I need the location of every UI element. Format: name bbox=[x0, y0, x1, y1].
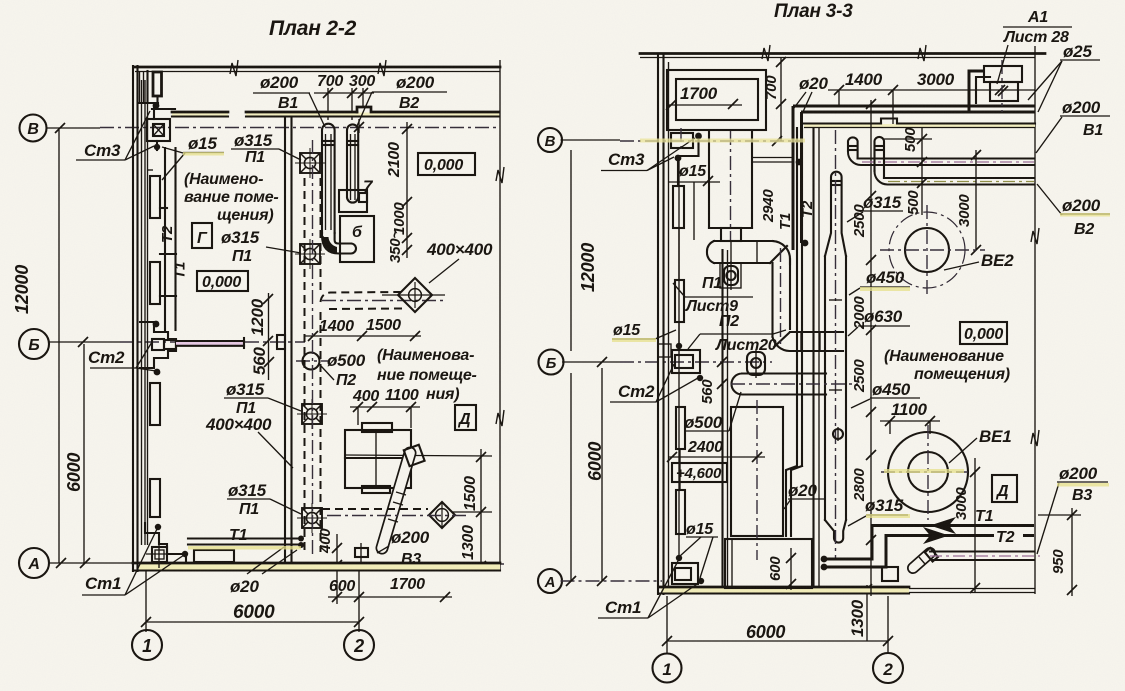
axis line В right bbox=[561, 136, 801, 146]
svg-text:ø315: ø315 bbox=[234, 131, 273, 150]
svg-text:ø315: ø315 bbox=[228, 481, 267, 500]
diffuser П1 no.1 bbox=[295, 148, 325, 178]
svg-text:1: 1 bbox=[142, 636, 152, 656]
svg-text:(Наимено-: (Наимено- bbox=[184, 171, 263, 188]
dim chain В-Б 12000 bbox=[12, 130, 59, 563]
room 1700 box bbox=[666, 70, 766, 130]
svg-text:П1: П1 bbox=[245, 149, 265, 166]
box Д left plan bbox=[455, 405, 476, 430]
duct В2 bbox=[347, 124, 367, 202]
label ø200 В2 leader right bbox=[1037, 184, 1110, 238]
fitting Лист20 bbox=[747, 349, 765, 378]
label ø500 right bbox=[684, 392, 741, 432]
dim chain В-Б 12000 right bbox=[571, 150, 598, 351]
label ø315 lower bbox=[848, 496, 908, 526]
label ø315 П1 400x400 third bbox=[205, 380, 301, 468]
dim 950 rot bbox=[1038, 508, 1081, 596]
svg-text:6000: 6000 bbox=[585, 442, 605, 481]
room name right bbox=[884, 348, 1010, 383]
П2 discharge duct upper bbox=[707, 228, 843, 351]
label ø15 bottom right bbox=[680, 521, 718, 578]
Т1 Т2 bottom pipes bbox=[821, 508, 1034, 570]
boundary line right bbox=[496, 60, 504, 570]
svg-text:ВЕ2: ВЕ2 bbox=[981, 251, 1014, 270]
svg-text:вание поме-: вание поме- bbox=[184, 189, 279, 206]
stair base rect bbox=[725, 539, 812, 588]
label ø200 В2 bbox=[357, 73, 447, 126]
partition wall x813 bbox=[814, 128, 820, 587]
svg-text:6000: 6000 bbox=[64, 453, 84, 492]
axis circle 1 right bbox=[653, 596, 682, 683]
svg-text:Лист 28: Лист 28 bbox=[1003, 29, 1069, 46]
label ø315 right top bbox=[847, 193, 903, 222]
svg-text:3000: 3000 bbox=[917, 70, 955, 89]
riser pipe right bbox=[676, 160, 682, 556]
duct В1 right plan bbox=[848, 137, 1034, 165]
dim chain right x872 bbox=[851, 99, 876, 596]
dim 560 rot bbox=[699, 357, 727, 404]
label ø20 top bbox=[794, 74, 828, 114]
П2 unit body bbox=[709, 131, 752, 240]
svg-text:Т1: Т1 bbox=[172, 262, 189, 279]
label ø15 top right bbox=[669, 163, 720, 240]
label ø315 П1 upper bbox=[231, 131, 301, 166]
svg-text:600: 600 bbox=[329, 578, 355, 595]
unit П1 fitting bbox=[720, 261, 741, 290]
room name text left bbox=[184, 171, 279, 224]
svg-text:А1: А1 bbox=[1027, 9, 1048, 26]
label А1 Лист28 bbox=[997, 9, 1072, 84]
top wall bbox=[135, 60, 500, 76]
svg-text:ø15: ø15 bbox=[686, 521, 714, 538]
dim 500 500 right bbox=[884, 127, 932, 215]
svg-text:Т2: Т2 bbox=[159, 225, 176, 243]
svg-text:Т2: Т2 bbox=[996, 529, 1015, 546]
svg-text:ø200: ø200 bbox=[1062, 98, 1101, 117]
svg-text:2100: 2100 bbox=[386, 142, 403, 178]
svg-text:1100: 1100 bbox=[385, 387, 419, 404]
plan 3-3 drawing bbox=[538, 1, 1110, 683]
radiator stubs bbox=[147, 170, 176, 296]
svg-text:1300: 1300 bbox=[460, 525, 477, 560]
label ø200 В1 bbox=[253, 73, 325, 127]
svg-text:ВЕ1: ВЕ1 bbox=[979, 427, 1011, 446]
svg-text:ø315: ø315 bbox=[863, 193, 902, 212]
radiator r4 right bbox=[676, 490, 685, 534]
stair column bbox=[731, 400, 783, 560]
partition wall bbox=[277, 117, 292, 563]
labels ø200 В1 В2 right bbox=[1036, 98, 1110, 153]
label Ст2 right bbox=[610, 364, 698, 402]
svg-text:0,000: 0,000 bbox=[424, 157, 463, 174]
flexible duct slanted bbox=[382, 445, 425, 548]
diamond grille top bbox=[382, 278, 445, 312]
svg-text:2: 2 bbox=[353, 636, 364, 656]
svg-text:560: 560 bbox=[250, 346, 269, 375]
bottom wall right plan bbox=[659, 587, 909, 594]
level box +4,600 bbox=[672, 463, 727, 482]
svg-text:В2: В2 bbox=[1074, 221, 1094, 238]
svg-text:В1: В1 bbox=[1083, 122, 1103, 139]
pipe from Ст2 bbox=[176, 338, 244, 348]
svg-text:2: 2 bbox=[882, 660, 893, 679]
fan ВЕ1 bbox=[881, 425, 1011, 520]
svg-text:План 3-3: План 3-3 bbox=[774, 1, 853, 22]
svg-text:ние помеще-: ние помеще- bbox=[377, 367, 477, 384]
svg-text:400×400: 400×400 bbox=[205, 415, 272, 434]
svg-text:ø15: ø15 bbox=[613, 322, 641, 339]
dim 1200 560 bbox=[248, 293, 274, 380]
svg-text:План 2-2: План 2-2 bbox=[269, 17, 357, 40]
label ø315 П1 fourth bbox=[227, 481, 301, 518]
corridor wall right plan bbox=[804, 119, 1035, 128]
svg-text:950: 950 bbox=[1050, 549, 1067, 574]
svg-text:ø500: ø500 bbox=[684, 413, 723, 432]
svg-text:Г: Г bbox=[197, 230, 208, 247]
riser box Ст2 bbox=[140, 321, 176, 376]
box Д right bbox=[992, 475, 1017, 502]
svg-text:500: 500 bbox=[902, 127, 919, 152]
radiator r3 right bbox=[676, 407, 685, 449]
axis circle Б right bbox=[539, 350, 564, 375]
svg-text:(Наименова-: (Наименова- bbox=[377, 347, 474, 364]
level box 0,000 left room bbox=[197, 271, 248, 291]
unit box 7 bbox=[339, 177, 374, 212]
label Ст2 bbox=[88, 342, 156, 371]
dim chain Б-А 6000 right bbox=[566, 368, 607, 586]
svg-text:1300: 1300 bbox=[848, 599, 867, 637]
unit box б bbox=[340, 216, 374, 262]
boundary right x1035 bbox=[1031, 46, 1039, 594]
svg-text:Т1: Т1 bbox=[975, 508, 994, 525]
Ст1 right bbox=[672, 555, 704, 584]
label ø20 mid bbox=[784, 481, 824, 509]
label Ст1 right bbox=[598, 561, 700, 618]
svg-text:Б: Б bbox=[546, 355, 557, 372]
svg-text:В: В bbox=[545, 133, 556, 150]
axis line Б right bbox=[562, 357, 772, 367]
П2 lower duct ø500 bbox=[731, 374, 858, 395]
axis line А right bbox=[561, 581, 1036, 593]
svg-text:П1: П1 bbox=[702, 275, 722, 292]
svg-text:А: А bbox=[544, 574, 556, 591]
top wall right bbox=[640, 45, 1045, 61]
svg-text:В1: В1 bbox=[278, 95, 298, 112]
dim 1400 3000 top right bbox=[828, 70, 1035, 124]
svg-text:1400: 1400 bbox=[845, 70, 883, 89]
unit А1 bbox=[969, 60, 1022, 112]
svg-text:700: 700 bbox=[317, 73, 343, 90]
svg-text:В: В bbox=[27, 121, 38, 138]
svg-text:П1: П1 bbox=[232, 248, 252, 265]
svg-text:2500: 2500 bbox=[851, 359, 868, 393]
label Лист20 bbox=[688, 330, 786, 354]
svg-text:Ст3: Ст3 bbox=[608, 150, 645, 169]
riser pipe ø15 bbox=[147, 95, 149, 545]
svg-text:350~: 350~ bbox=[387, 230, 404, 263]
label ø200 В3 right bbox=[1037, 464, 1108, 554]
label Ст1 bbox=[82, 529, 184, 595]
floor register В3 bbox=[355, 543, 368, 562]
svg-text:560: 560 bbox=[699, 379, 716, 404]
dim 600 rot right bbox=[767, 548, 796, 590]
svg-text:6000: 6000 bbox=[746, 622, 785, 642]
svg-text:Ст1: Ст1 bbox=[85, 574, 121, 593]
diffuser П1 no.3 bbox=[297, 399, 327, 429]
svg-text:0,000: 0,000 bbox=[964, 326, 1003, 343]
level box 0,000 right bbox=[960, 322, 1007, 344]
svg-text:ø15: ø15 bbox=[679, 163, 707, 180]
dim 700 300 top bbox=[314, 73, 375, 120]
duct В1 bbox=[322, 124, 356, 254]
svg-text:500: 500 bbox=[905, 190, 922, 215]
label Ст3 bbox=[76, 111, 154, 160]
dim 2400 bbox=[667, 439, 765, 462]
riser box Ст1 bbox=[146, 524, 188, 568]
svg-text:1700: 1700 bbox=[680, 84, 718, 103]
svg-text:Лист20: Лист20 bbox=[715, 337, 777, 354]
svg-text:12000: 12000 bbox=[578, 243, 598, 292]
svg-text:П1: П1 bbox=[239, 501, 259, 518]
duct В3 right bbox=[913, 548, 1040, 568]
pipe stubs unit to risers bbox=[752, 158, 793, 163]
svg-text:П2: П2 bbox=[719, 313, 739, 330]
dim 1300 bottom right bbox=[848, 584, 872, 641]
heat pipes Т1 Т2 vertical bbox=[793, 106, 808, 250]
label ø630 bbox=[848, 307, 910, 336]
Ст2 right bbox=[658, 344, 703, 381]
label ø15 middle right bbox=[612, 322, 676, 339]
dim chain 1500 1300 right bbox=[345, 449, 492, 571]
level box 0,000 room В1 bbox=[418, 153, 475, 175]
axis line В bbox=[47, 123, 500, 133]
radiator wall 1 bbox=[150, 176, 160, 218]
svg-text:ø200: ø200 bbox=[391, 528, 430, 547]
svg-text:ø315: ø315 bbox=[865, 496, 904, 515]
svg-text:ø20: ø20 bbox=[230, 577, 259, 596]
dim 400 vertical bottom bbox=[317, 528, 342, 604]
svg-text:ø200: ø200 bbox=[396, 73, 435, 92]
svg-text:ø200: ø200 bbox=[1059, 464, 1098, 483]
svg-text:В2: В2 bbox=[399, 95, 419, 112]
axis circle 2 right bbox=[873, 596, 903, 683]
svg-text:ø20: ø20 bbox=[788, 481, 817, 500]
radiator bottom horizontal bbox=[194, 550, 234, 562]
svg-text:ø450: ø450 bbox=[866, 268, 905, 287]
svg-text:Ст1: Ст1 bbox=[605, 598, 641, 617]
label ø15 upper + leaders bbox=[162, 134, 224, 180]
pipes Т1 bottom bbox=[188, 527, 304, 548]
dim 1400 1500 mid bbox=[304, 317, 421, 341]
svg-text:0,000: 0,000 bbox=[202, 274, 241, 291]
diamond grille В3 bbox=[322, 502, 470, 528]
heat mains top horizontal bbox=[793, 106, 1035, 112]
radiator r1 right bbox=[673, 186, 684, 228]
riser duct ø630/ø450 bbox=[825, 130, 846, 560]
dim 2940 bbox=[760, 189, 777, 223]
svg-text:Ст2: Ст2 bbox=[88, 348, 125, 367]
left wall right plan bbox=[658, 55, 669, 594]
fan ВЕ2 bbox=[880, 205, 1014, 296]
ø20 pipes right plan bbox=[786, 128, 802, 536]
svg-text:3000: 3000 bbox=[956, 194, 973, 227]
svg-text:П2: П2 bbox=[336, 372, 356, 389]
svg-text:6000: 6000 bbox=[233, 602, 275, 623]
svg-text:1200: 1200 bbox=[248, 298, 267, 336]
svg-text:б: б bbox=[352, 224, 363, 241]
svg-text:400: 400 bbox=[352, 388, 379, 405]
axis circle В right bbox=[538, 128, 562, 152]
svg-text:700: 700 bbox=[763, 75, 780, 100]
svg-text:400×400: 400×400 bbox=[426, 240, 493, 259]
corridor wall bbox=[172, 107, 499, 117]
small square unit bottom bbox=[882, 567, 898, 581]
radiator wall 3 bbox=[150, 383, 160, 425]
diffuser П1 no.2 bbox=[295, 239, 325, 269]
svg-text:Д: Д bbox=[457, 411, 471, 428]
svg-text:ø25: ø25 bbox=[1063, 42, 1092, 61]
dim 1100 bbox=[880, 400, 940, 434]
svg-text:А: А bbox=[27, 556, 39, 573]
riser Т2 line bbox=[159, 148, 176, 330]
svg-text:ø630: ø630 bbox=[864, 307, 903, 326]
svg-text:Д: Д bbox=[995, 483, 1009, 500]
dim 600 1700 bottom bbox=[328, 576, 452, 602]
svg-text:В3: В3 bbox=[401, 551, 421, 568]
dim chain Б-А 6000 bbox=[64, 344, 84, 563]
label ø20 bottom + leaders bbox=[230, 547, 297, 596]
axis circle 1 bbox=[132, 570, 162, 660]
dim 3000 rot right bbox=[956, 150, 981, 255]
radiator wall 2 bbox=[150, 262, 160, 304]
axis circle В bbox=[20, 115, 47, 142]
duct В2 right plan bbox=[874, 137, 1034, 185]
svg-text:ø315: ø315 bbox=[221, 228, 260, 247]
radiator wall 4 bbox=[150, 479, 160, 517]
svg-text:1500: 1500 bbox=[366, 317, 401, 334]
dim 6000 bottom right bbox=[667, 622, 888, 642]
room name text right bbox=[377, 347, 477, 403]
axis circle Б bbox=[19, 329, 49, 359]
svg-text:Ст2: Ст2 bbox=[618, 382, 655, 401]
axis circle 2 bbox=[344, 119, 374, 660]
svg-text:1500: 1500 bbox=[462, 476, 479, 511]
П2 circle ø500 bbox=[296, 351, 366, 389]
label ø450 bbox=[849, 268, 910, 295]
svg-text:1700: 1700 bbox=[390, 576, 425, 593]
dim chain 2100 1000 350 bbox=[386, 122, 412, 263]
svg-text:помещения): помещения) bbox=[914, 366, 1010, 383]
riser box Ст3 bbox=[147, 102, 170, 150]
svg-text:1: 1 bbox=[662, 660, 671, 679]
label ø200 В3 bbox=[377, 528, 430, 568]
color accents bbox=[183, 139, 1110, 550]
dashed duct П1 vertical bbox=[305, 178, 321, 552]
bottom wall bbox=[133, 563, 500, 571]
svg-text:ø315: ø315 bbox=[226, 380, 265, 399]
svg-text:300: 300 bbox=[349, 73, 375, 90]
axis line А bbox=[49, 558, 508, 568]
wall corner step bottom-left bbox=[145, 523, 186, 563]
svg-text:1100: 1100 bbox=[891, 400, 928, 419]
svg-text:ния): ния) bbox=[426, 386, 459, 403]
equipment room Д bbox=[345, 423, 411, 493]
dim 400 1100 room Д bbox=[350, 387, 420, 428]
svg-text:ø20: ø20 bbox=[799, 74, 828, 93]
duct centerline П1 bbox=[313, 140, 447, 557]
dim 700 rot top bbox=[763, 57, 786, 141]
svg-text:600: 600 bbox=[767, 556, 784, 581]
riser Т1 line bbox=[172, 148, 189, 330]
label 400x400 with diamond bbox=[426, 240, 493, 283]
dim 3000 rot lower right bbox=[953, 458, 980, 593]
label Ст3 right bbox=[601, 138, 695, 171]
dashed duct П1 branch bbox=[321, 292, 403, 309]
diffuser П1 no.4 bbox=[297, 503, 327, 533]
shaft wall x722 bbox=[723, 250, 728, 587]
radiator stubs right bbox=[679, 228, 680, 490]
labels Т1 Т2 rotated bbox=[777, 200, 816, 230]
box Г bbox=[192, 223, 212, 248]
svg-text:Т1: Т1 bbox=[777, 213, 794, 230]
label ø25 bbox=[1028, 42, 1100, 112]
axis circle А bbox=[19, 548, 49, 578]
svg-text:Ст3: Ст3 bbox=[84, 141, 121, 160]
title План 2-2 bbox=[269, 17, 357, 40]
plan 2-2 drawing bbox=[12, 17, 508, 660]
left wall bbox=[133, 66, 145, 571]
svg-text:1400: 1400 bbox=[319, 318, 354, 335]
radiator r2 right bbox=[675, 280, 684, 322]
Ст3 right bbox=[671, 128, 702, 186]
svg-text:3000: 3000 bbox=[953, 487, 970, 520]
svg-text:Т1: Т1 bbox=[229, 527, 248, 544]
axis line Б bbox=[49, 337, 305, 347]
svg-text:В3: В3 bbox=[1072, 487, 1092, 504]
svg-text:ø500: ø500 bbox=[327, 351, 366, 370]
column black top-left bbox=[139, 71, 175, 109]
svg-text:(Наименование: (Наименование bbox=[884, 348, 1004, 365]
svg-text:2400: 2400 bbox=[687, 439, 723, 456]
svg-text:ø200: ø200 bbox=[260, 73, 299, 92]
axis circle А right bbox=[538, 569, 562, 593]
svg-text:Б: Б bbox=[28, 337, 39, 354]
label ø315 П1 second bbox=[221, 228, 301, 265]
svg-text:2940: 2940 bbox=[760, 189, 777, 223]
svg-text:щения): щения) bbox=[217, 207, 273, 224]
svg-text:ø450: ø450 bbox=[872, 380, 911, 399]
svg-text:ø15: ø15 bbox=[188, 134, 217, 153]
title План 3-3 bbox=[774, 1, 853, 22]
label ø450 second bbox=[851, 380, 920, 408]
dim 6000 bottom bbox=[146, 602, 359, 623]
svg-text:12000: 12000 bbox=[12, 265, 32, 314]
labels П1 Лист9 П2 bbox=[673, 275, 753, 330]
svg-text:ø200: ø200 bbox=[1062, 196, 1101, 215]
svg-text:1000: 1000 bbox=[391, 202, 408, 235]
svg-text:+4,600: +4,600 bbox=[676, 465, 722, 482]
